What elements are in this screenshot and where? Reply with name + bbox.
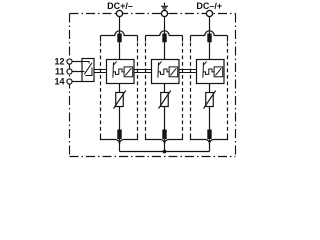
SCI symbol: blade with tick	[158, 61, 178, 77]
cartridge top corners	[101, 36, 138, 42]
SCI symbol: blade with tick	[113, 61, 133, 77]
module 2 (earth path)	[146, 16, 183, 152]
mechanical linkage double line (module 2 to module 3)	[179, 70, 197, 73]
svg-text:12: 12	[54, 57, 64, 67]
wire terminal 14	[72, 81, 82, 83]
cartridge dashed side right	[137, 43, 139, 135]
terminal 14	[67, 79, 72, 84]
wire terminal 12	[72, 61, 82, 63]
cartridge bottom edge with plug funnel	[191, 134, 228, 144]
cartridge dashed side right	[227, 43, 229, 135]
common node bus wire	[120, 151, 210, 153]
wire: through funnel to common bus	[119, 139, 121, 151]
wire: varistor to bottom contact	[164, 107, 166, 130]
cartridge dashed side left	[100, 43, 102, 135]
svg-text:DC+/–: DC+/–	[107, 1, 133, 11]
bottom plug contact (black block)	[162, 130, 166, 140]
thermal disconnector (black block, top)	[162, 34, 166, 43]
SCI switching device box	[152, 60, 180, 84]
cartridge top edge with plug arch	[146, 31, 183, 36]
contact: wire 11 stub inside	[82, 71, 84, 73]
terminal DC-/+	[206, 10, 212, 16]
wire: through funnel to common bus	[164, 139, 166, 151]
ground symbol	[161, 3, 168, 10]
terminal 12	[67, 59, 72, 64]
enclosure dash-dot border	[70, 14, 236, 157]
cartridge dashed side left	[145, 43, 147, 135]
terminal DC+/-	[116, 10, 122, 16]
wire terminal 11	[72, 71, 82, 73]
junction node	[163, 150, 167, 154]
SCI switching device box	[107, 60, 135, 84]
SCI symbol: thermal zigzag	[158, 69, 169, 74]
terminal PE	[161, 10, 167, 16]
module 1 (DC+ path)	[101, 16, 138, 152]
terminal 11	[67, 69, 72, 74]
wire: varistor to bottom contact	[119, 107, 121, 130]
contact blade	[84, 63, 92, 75]
cartridge bottom edge with plug funnel	[146, 134, 183, 144]
SCI symbol: short-circuit element box	[214, 67, 223, 77]
SCI switching device box	[197, 60, 225, 84]
contact: 14 L-contact	[85, 68, 92, 76]
wire: disconnector to SCI box	[164, 42, 166, 59]
remote signalling changeover contact box	[82, 59, 94, 82]
cartridge dashed side left	[190, 43, 192, 135]
varistor	[116, 93, 124, 107]
cartridge bottom edge with plug funnel	[101, 134, 138, 144]
cartridge top corners	[191, 36, 228, 42]
SCI symbol: short-circuit element box	[169, 67, 178, 77]
cartridge top edge with plug arch	[101, 31, 138, 36]
varistor	[161, 93, 169, 107]
bottom plug contact (black block)	[117, 130, 121, 140]
bottom plug contact (black block)	[207, 130, 211, 140]
wire: terminal to disconnector	[209, 16, 211, 34]
SCI symbol: blade with tick	[203, 61, 223, 77]
cartridge top corners	[146, 36, 183, 42]
wire: through funnel to common bus	[209, 139, 211, 151]
wire: terminal to disconnector	[164, 16, 166, 34]
svg-text:DC–/+: DC–/+	[196, 1, 222, 11]
wire: SCI box to varistor	[119, 84, 121, 93]
thermal disconnector (black block, top)	[207, 34, 211, 43]
svg-text:14: 14	[54, 77, 64, 87]
wire: varistor to bottom contact	[209, 107, 211, 130]
varistor	[206, 93, 214, 107]
mechanical linkage double line (module 1 to module 2)	[134, 70, 152, 73]
wire: SCI box to varistor	[209, 84, 211, 93]
contact: wire 12 inside with hook	[82, 62, 89, 64]
mechanical linkage double line (contact to module 1)	[94, 70, 107, 73]
wire: terminal to disconnector	[119, 16, 121, 34]
wire: disconnector to SCI box	[119, 42, 121, 59]
cartridge dashed side right	[182, 43, 184, 135]
SCI symbol: thermal zigzag	[203, 69, 214, 74]
SCI symbol: short-circuit element box	[124, 67, 133, 77]
cartridge top edge with plug arch	[191, 31, 228, 36]
module 3 (DC- path)	[191, 16, 228, 152]
wire: SCI box to varistor	[164, 84, 166, 93]
SCI symbol: thermal zigzag	[113, 69, 124, 74]
thermal disconnector (black block, top)	[117, 34, 121, 43]
svg-text:11: 11	[55, 67, 65, 77]
wire: disconnector to SCI box	[209, 42, 211, 59]
